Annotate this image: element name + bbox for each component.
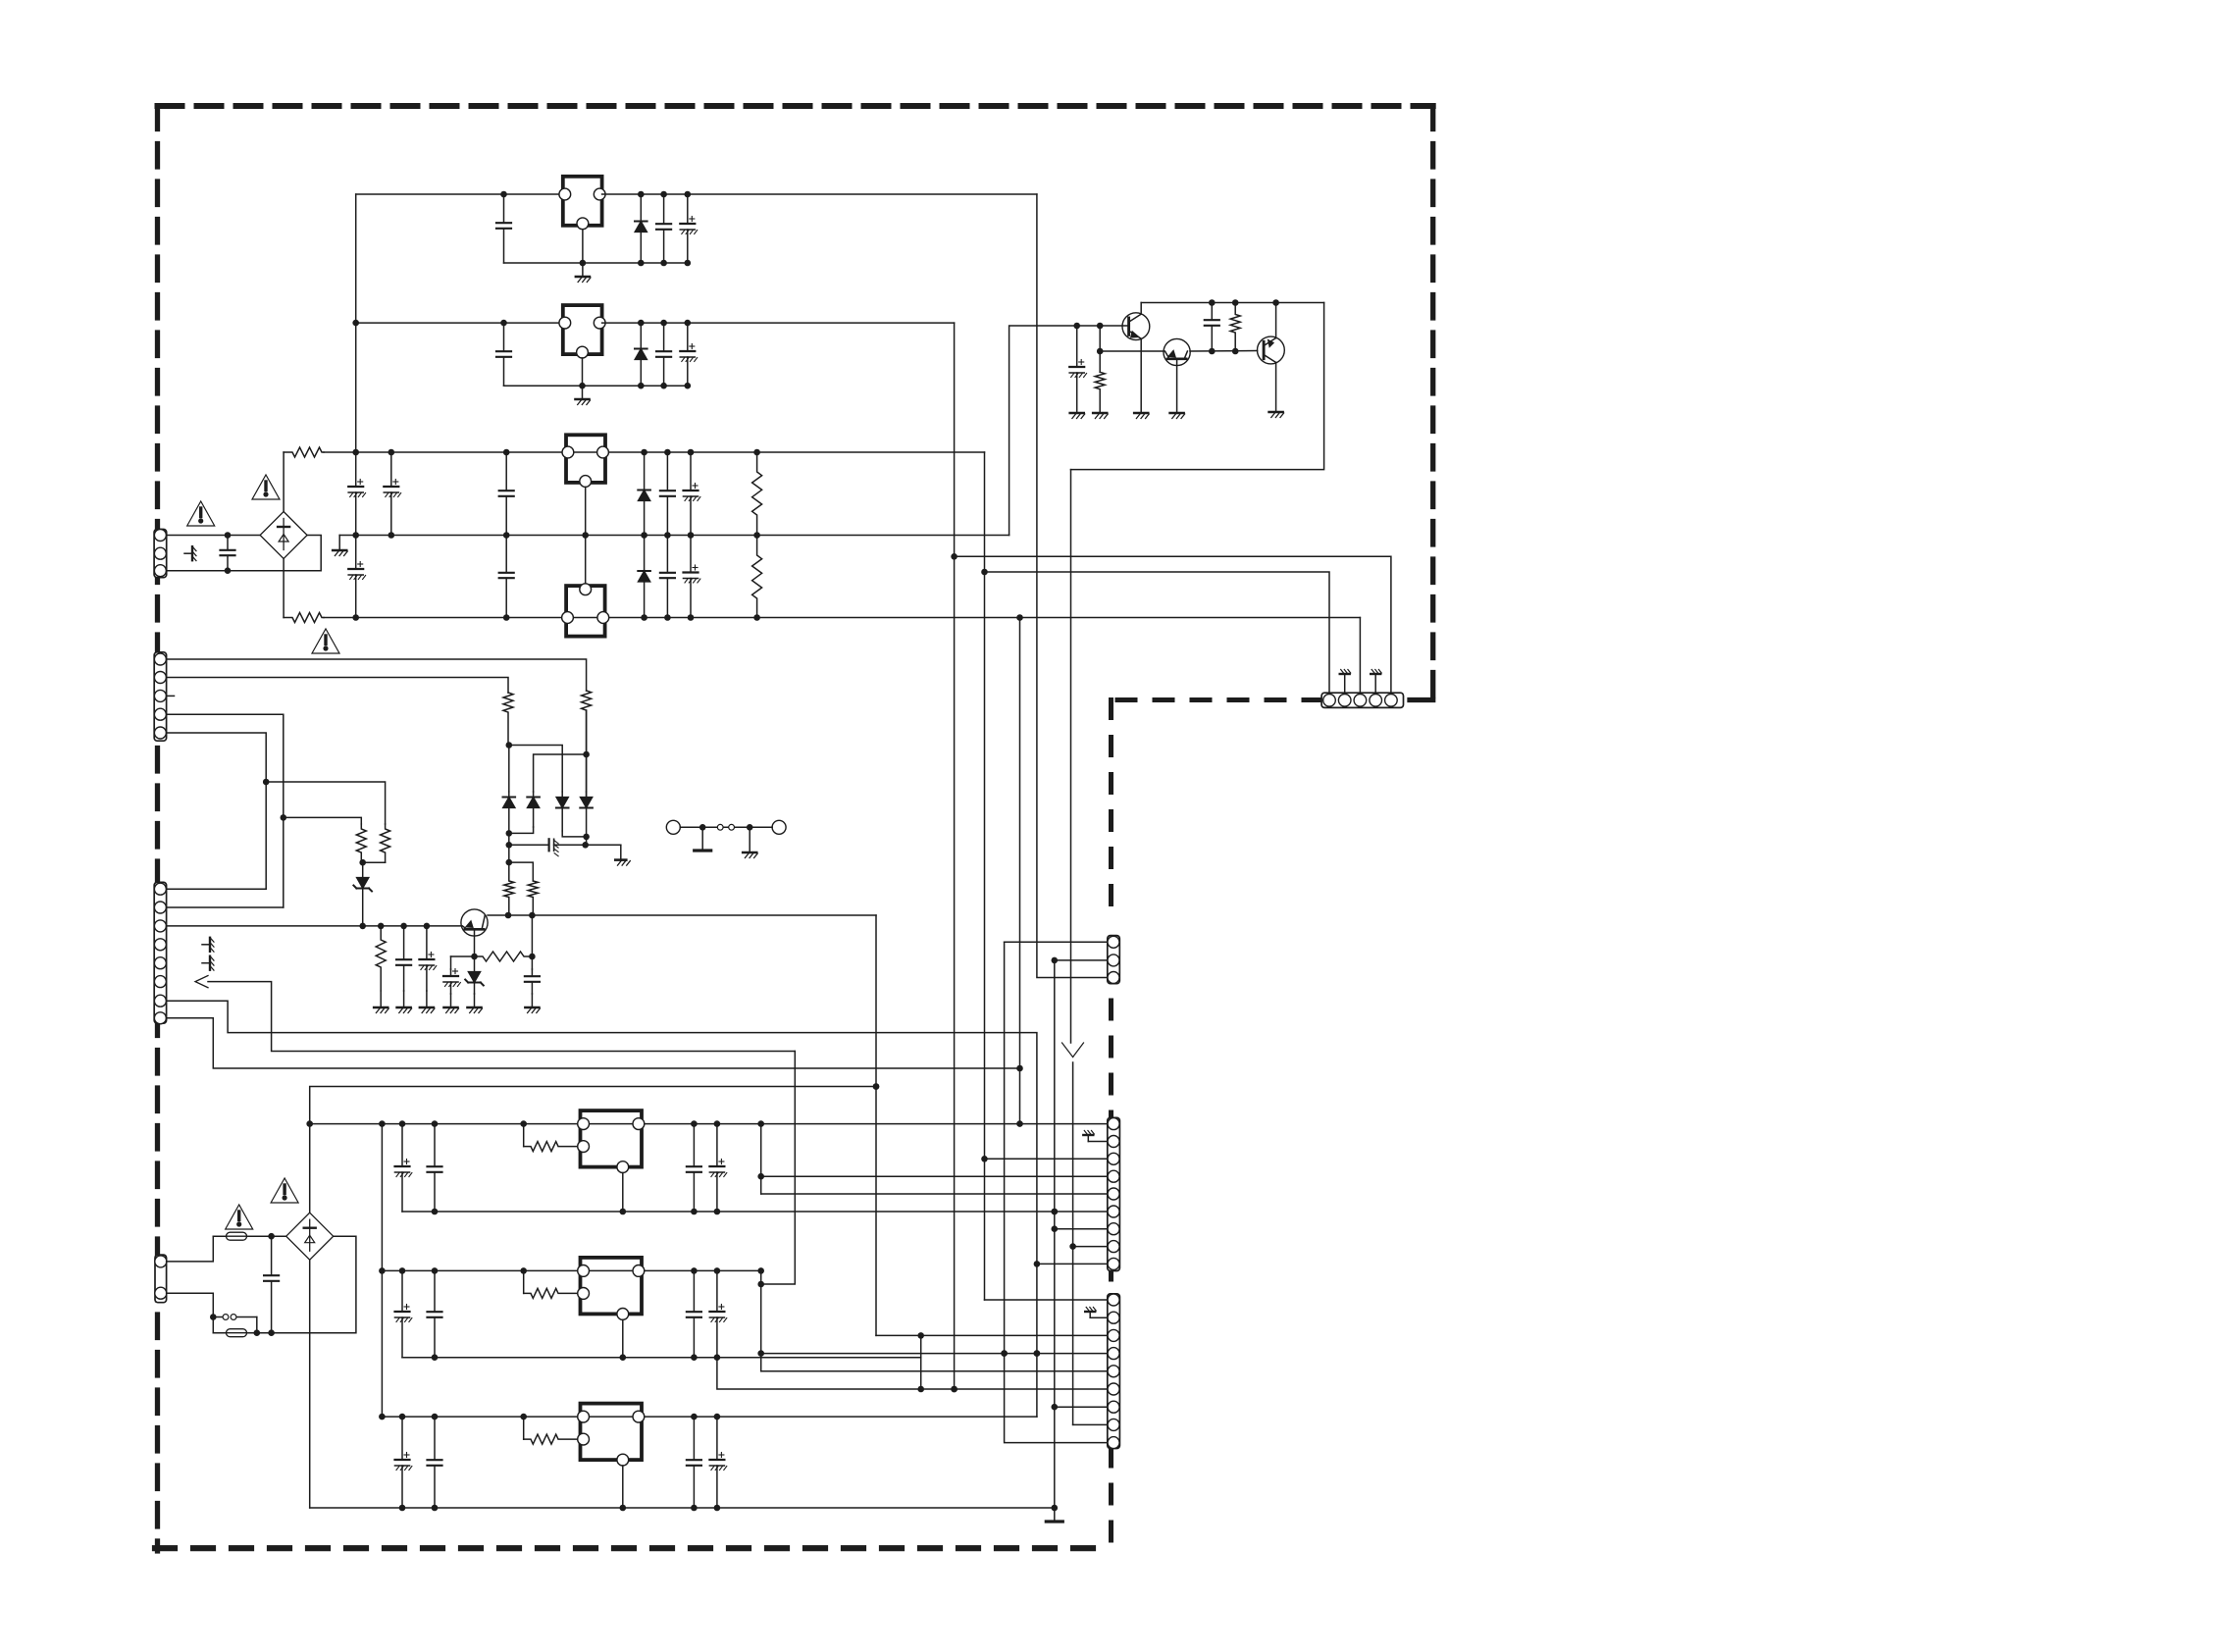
wire V5 to CN105 pin9	[1037, 1263, 1108, 1265]
ground Q103 emitter	[1269, 412, 1284, 418]
bottom rail 3	[382, 1414, 1037, 1420]
dot on gnd run	[582, 842, 589, 849]
connector CN101 AC input	[154, 530, 167, 578]
small ground of C119 run	[615, 845, 630, 865]
capacitor C135	[687, 1417, 701, 1508]
wire IC102 ground pin	[582, 358, 584, 386]
resistor R114	[376, 926, 386, 991]
inline link open contacts	[717, 824, 734, 830]
ground R114	[374, 991, 388, 1013]
chassis ground stub CN101 pin2	[184, 546, 196, 560]
capacitor C111	[499, 452, 514, 536]
row1 output branch down	[757, 1124, 764, 1194]
test point TP101	[666, 820, 680, 834]
capacitor C122	[396, 926, 411, 991]
transistor Q103	[1258, 303, 1285, 413]
transistor Q104	[461, 909, 488, 936]
wire IC103 ground pin to mid rail	[585, 487, 587, 535]
wire to IC105 enable resistor	[523, 1124, 525, 1147]
vertical feed to rows 1-2 inputs	[352, 194, 359, 452]
connector CN103	[154, 882, 166, 1023]
resistor R109	[504, 862, 514, 915]
bus2 drop to row2 output net	[761, 1052, 796, 1285]
wire CN103 pin2	[167, 906, 284, 908]
connector CN102	[154, 652, 166, 741]
electrolytic capacitor C125	[395, 1124, 412, 1212]
wire CN103 pin6 to bus2	[208, 982, 795, 1052]
chassis ground at Vg bottom	[1046, 1508, 1062, 1522]
row1 return wire	[504, 260, 692, 267]
resistor R117	[524, 1434, 584, 1444]
lower AC wire to bridge	[254, 1236, 356, 1336]
transistor Q102	[1164, 338, 1190, 413]
wire H1 row2 net to CN107 pin5	[955, 556, 1391, 693]
wire node to Q102	[1100, 350, 1164, 352]
wire bottom rail to CN107 pin3	[1359, 618, 1361, 694]
resistor R101 in positive rail	[284, 447, 324, 457]
wire CN103 pin7 to bus1	[167, 1001, 1041, 1417]
wire Q102 to Q103 base	[1190, 348, 1258, 355]
bridge D112 minus riser	[309, 1260, 311, 1508]
connector CN107	[1321, 693, 1403, 707]
bottom rail 1	[310, 1120, 1108, 1127]
branch wire R107 to D109	[583, 710, 590, 792]
warning triangle 4	[226, 1205, 253, 1229]
small ground CN107 pin4	[1371, 670, 1381, 695]
wire Q101 base resistor node	[1097, 326, 1104, 372]
wire TP101 to TP102	[680, 824, 772, 831]
antenna fork mark	[1062, 1043, 1084, 1058]
dot at R113 right	[529, 954, 536, 960]
branch to diode D108	[509, 746, 562, 793]
electrolytic capacitor C119	[509, 839, 621, 855]
row2 output branch down	[757, 1270, 764, 1370]
warning triangle 1	[187, 501, 215, 526]
connector CN106	[1108, 1294, 1120, 1449]
electrolytic capacitor C102	[348, 452, 365, 536]
electrolytic capacitor C128	[709, 1124, 726, 1212]
resistor R106	[1230, 303, 1240, 352]
dashed inner boundary vertical segment	[1109, 700, 1113, 1549]
vertical ground wire Vg	[1052, 960, 1059, 1508]
capacitor C131	[687, 1270, 701, 1357]
wire return2 drop to CN106 pin6	[717, 1358, 1108, 1393]
D108 bottom link	[562, 831, 590, 840]
wire V6 lower to CN106 pin8	[1073, 1423, 1108, 1425]
electrolytic capacitor C110	[680, 323, 697, 386]
diode D109	[580, 792, 593, 845]
diode D104	[638, 452, 650, 536]
wire CN108 pin2 feed	[1052, 957, 1108, 964]
bridge rectifier D112	[286, 1213, 334, 1260]
electrolytic capacitor C117	[1069, 326, 1086, 378]
resistor R104	[752, 536, 762, 618]
warning triangle 3	[312, 629, 339, 653]
chassis stub CN103 pin5	[202, 956, 214, 970]
return wire row2	[402, 1354, 921, 1361]
mid rail (regulator common)	[339, 532, 1009, 539]
voltage regulator IC103	[562, 435, 608, 487]
ground C121	[525, 994, 540, 1013]
resistor R115	[524, 1142, 584, 1152]
voltage regulator IC104	[562, 584, 609, 637]
warning triangle 2	[252, 475, 280, 499]
ground row2	[576, 386, 591, 404]
electrolytic capacitor C132	[709, 1270, 726, 1357]
dashed isolation boundary right edge	[1410, 106, 1433, 700]
wire CN108 pin1 feed	[1005, 941, 1108, 943]
ground row1	[576, 263, 591, 283]
fuse F102	[213, 1329, 271, 1337]
resistor R102 in negative rail	[284, 613, 324, 623]
wire V2 to CN105 pin3	[985, 1158, 1108, 1160]
ground C117	[1070, 377, 1085, 419]
link to diode D107	[534, 754, 587, 792]
wire R110 column down	[531, 915, 533, 969]
wire fuse to bridge D112	[272, 1235, 286, 1237]
wire Q104 supply to CN106 pin3	[876, 1332, 1108, 1339]
capacitor C113	[660, 452, 675, 536]
capacitor C106	[656, 194, 671, 263]
capacitor C134	[428, 1417, 442, 1508]
wire CN103 pin1	[167, 888, 267, 890]
row2 return wire	[504, 383, 692, 389]
electrolytic capacitor C104	[348, 536, 365, 618]
wire H2 row3 net to CN107 pin1	[985, 572, 1330, 694]
stub CN105 pin2	[1088, 1141, 1108, 1143]
wire row2 input	[356, 320, 563, 327]
vertical from Q104 collector	[873, 915, 880, 1335]
wire emitter node left	[451, 955, 475, 957]
plain ground under TP row	[695, 827, 711, 851]
vertical supply wire V6 upper	[1070, 470, 1072, 1043]
small ground CN105 pin2	[1083, 1131, 1094, 1142]
capacitor C105	[496, 194, 511, 263]
capacitor C124 across AC	[264, 1236, 279, 1333]
dashed inner boundary horizontal segment	[1110, 697, 1322, 702]
Q104 collector wire	[488, 912, 876, 919]
wire CN103 pin8 to bus3	[167, 1018, 1023, 1071]
resistor R105	[1095, 372, 1105, 413]
fuse F101	[213, 1232, 271, 1240]
diode D102	[635, 194, 647, 263]
wire row2 output	[602, 320, 955, 327]
wire C120 drop	[450, 956, 452, 969]
vertical wire V5 row1 output to CN108 pin3	[1037, 194, 1108, 978]
hatched ground under TP row	[743, 827, 757, 857]
wire CN101 pin3 lower AC	[167, 536, 322, 575]
wire row1 input	[356, 191, 563, 198]
small ground CN106 pin2	[1085, 1308, 1096, 1318]
voltage regulator IC101	[559, 177, 605, 230]
resistor R107	[582, 691, 592, 797]
wire IC104 common pin to mid rail	[585, 536, 587, 584]
regulator feed vertical	[379, 1120, 386, 1420]
wire V2 to CN106 pin1	[985, 1299, 1108, 1301]
diode D103	[635, 323, 647, 386]
diode D105	[638, 536, 650, 618]
resistor top link	[509, 862, 534, 881]
wire to IC106 enable resistor	[523, 1270, 525, 1293]
ground Q102 emitter	[1170, 413, 1185, 419]
dashed isolation boundary top edge	[158, 103, 1433, 109]
vertical wire V6 lower to connectors	[1069, 1062, 1076, 1424]
resistor R116	[524, 1288, 584, 1298]
dot at bridge AC1 node	[268, 1233, 275, 1240]
wire to IC107 enable resistor	[523, 1417, 525, 1439]
collector rail of transistor cluster	[1141, 299, 1323, 306]
capacitor C127	[687, 1124, 701, 1212]
electrolytic capacitor C120	[443, 969, 460, 995]
bottom negative rail (row4 input)	[324, 614, 1360, 621]
transistor Q101	[1122, 303, 1150, 414]
warning triangle 5	[271, 1178, 298, 1203]
electrolytic capacitor C103	[384, 452, 400, 536]
ground C123	[420, 991, 435, 1013]
wire CN102 pin4	[167, 714, 287, 907]
chassis stub CN103 pin4	[202, 938, 214, 952]
ground R105	[1093, 413, 1108, 419]
bridge D112 plus riser	[306, 1083, 879, 1213]
wire CN103 pin3 base line	[167, 923, 462, 930]
electrolytic capacitor C129	[395, 1270, 412, 1357]
wire IC101 ground pin	[582, 230, 584, 263]
wire to CN106 pin4	[761, 1350, 1108, 1357]
wire row1 output	[602, 191, 1037, 198]
wire CN102 pin1	[167, 659, 587, 691]
diode D106	[503, 792, 516, 833]
ground at mid rail left end	[333, 536, 347, 556]
wire to CN105 pin4	[761, 1175, 1108, 1177]
wire to CN106 pin7	[1055, 1406, 1108, 1408]
link wire CN106 pin3 to pin6 net	[917, 1335, 924, 1392]
zener diode D110	[353, 862, 372, 926]
electrolytic capacitor C116	[684, 536, 700, 618]
capacitor C101 across AC line	[221, 536, 235, 571]
zener diode D111	[465, 956, 484, 994]
electrolytic capacitor C136	[709, 1417, 726, 1508]
stub CN106 pin2	[1090, 1316, 1108, 1318]
D106 D107 bottom join	[506, 827, 534, 837]
branch from CN102 pin5 node	[266, 782, 385, 824]
vertical wire to CN106 pin9	[1001, 942, 1108, 1442]
diode D107	[527, 792, 540, 827]
ground C122	[397, 991, 412, 1013]
wire cluster rail to supply loop	[1071, 303, 1324, 470]
voltage regulator IC102	[559, 305, 605, 358]
wire to CN106 pin5	[761, 1370, 1108, 1372]
join wire below R111 R112	[359, 859, 385, 866]
branch from CN102 pin4 node	[284, 817, 362, 824]
resistor R113	[475, 952, 533, 961]
wire CN104 pin1 to fuse	[167, 1236, 214, 1262]
capacitor C115	[660, 536, 675, 618]
vertical wire V2 row3 output to connectors	[981, 452, 988, 1300]
test point TP102	[772, 820, 786, 834]
stub CN102 pin3	[167, 695, 175, 697]
resistor R111	[356, 824, 366, 862]
wire CN102 pin2	[167, 678, 508, 694]
electrolytic capacitor C123	[419, 926, 436, 991]
resistor R112	[381, 824, 390, 862]
return wire row1 to CN105 pin6	[402, 1209, 1108, 1215]
wire CN102 pin5	[167, 733, 270, 889]
wire to CN105 pin5	[761, 1193, 1108, 1195]
capacitor C109	[656, 323, 671, 386]
ground Q101 emitter	[1134, 413, 1149, 419]
gnd node vertical	[506, 833, 513, 865]
return wire row3 ground run	[310, 1505, 1058, 1512]
Q104 emitter node	[471, 929, 478, 959]
resistor R110	[528, 881, 538, 915]
electrolytic capacitor C114	[684, 452, 700, 536]
voltage regulator IC107	[578, 1404, 645, 1508]
fusible link L101	[213, 1315, 256, 1333]
top positive rail (row3 input)	[324, 449, 985, 456]
capacitor C121	[525, 969, 540, 994]
diode D108	[556, 792, 569, 831]
node wire at R108 bottom	[506, 742, 513, 792]
ground D111	[468, 994, 483, 1013]
dashed isolation boundary bottom edge	[155, 1545, 1112, 1551]
bottom rail 2	[382, 1267, 764, 1274]
dashed isolation boundary left edge	[155, 106, 160, 1551]
ground C120	[444, 994, 459, 1013]
capacitor C118	[1205, 303, 1219, 352]
electrolytic capacitor C107	[680, 194, 697, 263]
resistor R108	[503, 693, 513, 745]
wire mid-rail feedback to Q101 base	[1009, 323, 1129, 536]
voltage regulator IC105	[578, 1110, 645, 1212]
arrow marker CN103 pin6	[195, 976, 208, 988]
capacitor C130	[428, 1270, 442, 1357]
wire bridge D101 minus riser to bottom rail	[283, 559, 285, 618]
connector CN104 AC input 2	[155, 1255, 167, 1303]
capacitor C112	[499, 536, 514, 618]
bridge rectifier D101	[260, 512, 307, 559]
voltage regulator IC106	[578, 1258, 645, 1358]
wire Vg to CN105 pin7	[1055, 1228, 1108, 1230]
capacitor C126	[428, 1124, 442, 1212]
wire CN101 pin1 to bridge AC1	[167, 532, 260, 539]
wire bridge D101 plus riser to top rail	[283, 452, 285, 512]
wire V6 to CN105 pin8	[1073, 1246, 1108, 1248]
resistor R103	[752, 452, 762, 536]
connector CN108	[1108, 936, 1120, 984]
small ground CN107 pin2	[1340, 670, 1351, 695]
capacitor C108	[496, 323, 511, 386]
connector CN105	[1108, 1117, 1120, 1270]
vertical V4 row4 output to bottom rail1	[1019, 618, 1021, 1124]
electrolytic capacitor C133	[395, 1417, 412, 1508]
vertical wire V1 row2 output down	[951, 323, 957, 1392]
wire CN104 pin2 down	[167, 1293, 217, 1333]
